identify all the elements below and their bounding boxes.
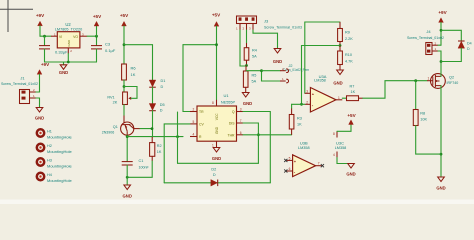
op-amp U3B (unused) (284, 140, 324, 176)
svg-text:4.7K: 4.7K (345, 59, 353, 63)
svg-text:CV: CV (199, 123, 204, 127)
wire Q1 emitter down (126, 135, 128, 161)
wire vertical to lower loop (177, 112, 179, 163)
svg-text:H4: H4 (47, 173, 52, 177)
svg-text:GND: GND (243, 101, 252, 106)
op timer U1 NE555P (190, 93, 243, 148)
power +9V (regulator input) (36, 13, 45, 36)
wire R8 bottom to source (416, 126, 441, 155)
svg-text:GND: GND (212, 156, 221, 161)
svg-text:+5V: +5V (212, 12, 221, 17)
svg-text:MountingHole: MountingHole (47, 178, 72, 183)
wire +5V riser to TR (183, 45, 190, 112)
svg-text:D: D (467, 47, 470, 51)
svg-text:R3: R3 (297, 117, 302, 121)
wire drain into Q2 (440, 74, 442, 77)
svg-text:2N3906: 2N3906 (102, 131, 115, 135)
wire branch +5V over to VCC riser (183, 44, 217, 46)
svg-text:Screw_Terminal_01x02: Screw_Terminal_01x02 (1, 82, 38, 86)
node drain junction (440, 60, 443, 63)
svg-text:GND: GND (35, 116, 44, 121)
regulator U2 LM7805_TO220 (51, 22, 87, 54)
svg-text:2.2K: 2.2K (345, 37, 353, 41)
ground C1 (123, 185, 132, 199)
wire R7 to gate (363, 81, 427, 99)
resistor R8 (413, 81, 427, 126)
svg-text:LM358: LM358 (298, 146, 310, 150)
connector J1 Screw_Terminal_01x02 (1, 76, 38, 104)
node divider tap (339, 44, 342, 47)
svg-text:2: 2 (306, 100, 308, 104)
wire J3 pin1 to divider mid (240, 30, 247, 66)
svg-text:1K: 1K (351, 90, 356, 94)
wire THR to R3 (243, 134, 292, 136)
wire battery top line (305, 22, 340, 93)
svg-text:D: D (161, 85, 164, 89)
svg-text:VCC: VCC (215, 113, 219, 120)
svg-text:D: D (160, 108, 163, 112)
op-amp U3A (305, 74, 343, 112)
wire DIS drop (243, 123, 258, 163)
wire J3 pin3 to gnd (253, 30, 278, 49)
svg-text:U2: U2 (65, 22, 71, 27)
svg-text:H2: H2 (47, 144, 52, 148)
ground R10 (333, 70, 343, 85)
svg-text:DIS: DIS (229, 122, 235, 126)
svg-text:5: 5 (289, 157, 291, 161)
svg-text:100nF: 100nF (139, 165, 150, 169)
connector J2 Conn_01x02_Female (280, 64, 309, 83)
svg-text:C3: C3 (105, 41, 111, 46)
wire J4 pin2 to +9V (438, 44, 441, 46)
node +9V/D4 junction (440, 29, 443, 32)
svg-text:NE555P: NE555P (221, 100, 236, 104)
svg-text:D2: D2 (211, 168, 216, 172)
wire R2 bottom to C1 gnd wire (127, 161, 152, 177)
power +9V (J1) (37, 62, 50, 92)
svg-text:VO: VO (73, 35, 78, 39)
svg-text:3: 3 (240, 108, 242, 112)
power +5V (regulator output) (93, 14, 102, 36)
svg-text:GND: GND (273, 59, 282, 64)
op-amp power unit U3C (333, 131, 346, 157)
svg-text:5A: 5A (252, 79, 257, 83)
svg-text:5: 5 (193, 120, 195, 124)
svg-text:2K: 2K (113, 101, 118, 105)
svg-text:0.33µF: 0.33µF (55, 50, 68, 55)
svg-text:1K: 1K (297, 123, 302, 127)
svg-text:Q1: Q1 (113, 125, 118, 129)
svg-text:R6: R6 (131, 66, 137, 71)
svg-text:LM358: LM358 (335, 146, 347, 150)
svg-text:+9V: +9V (41, 62, 50, 67)
svg-text:D: D (213, 173, 216, 177)
mounting hole H2 (37, 144, 73, 154)
mounting hole H4 (37, 173, 73, 183)
svg-text:Q2: Q2 (449, 76, 454, 80)
ground regulator (59, 62, 68, 75)
node source/R8 junction (440, 153, 443, 156)
wire J1 pin2 to +9V (36, 91, 40, 93)
svg-text:THR: THR (228, 134, 236, 138)
wire J3 pin2 to R4 (246, 30, 248, 43)
wire RV1 bottom to Q1 base (123, 105, 125, 116)
svg-text:RV1: RV1 (107, 96, 114, 100)
svg-text:+9V: +9V (36, 13, 45, 18)
svg-text:7: 7 (240, 119, 242, 123)
wire J4 pin1 to drain (438, 51, 441, 74)
ground J3 pin3 (273, 49, 282, 65)
wire cap node to 555 reset line (127, 136, 183, 138)
svg-text:4: 4 (193, 133, 195, 137)
svg-text:GND: GND (346, 172, 355, 177)
wire D4 bottom branch (441, 48, 461, 61)
connector J4 Screw_Terminal_01x02 (407, 29, 444, 55)
svg-text:R5: R5 (252, 73, 257, 77)
resistor R2 (150, 137, 162, 161)
svg-text:8: 8 (212, 101, 214, 105)
svg-text:+5V: +5V (93, 14, 102, 19)
ground R5 (242, 93, 252, 107)
svg-text:MountingHole: MountingHole (47, 149, 72, 154)
diode D1 (149, 79, 165, 89)
node THR junction (257, 133, 260, 136)
resistor R3 (289, 104, 302, 135)
svg-text:H1: H1 (47, 130, 52, 134)
resistor R4 (244, 43, 257, 66)
svg-text:R9: R9 (345, 31, 350, 35)
capacitor C3 (91, 36, 116, 62)
svg-text:VI: VI (59, 35, 62, 39)
svg-text:C1: C1 (139, 159, 144, 163)
svg-text:1K: 1K (131, 72, 136, 77)
svg-text:7: 7 (318, 162, 320, 166)
transistor Q2 IRF740 (427, 74, 458, 89)
svg-text:1K: 1K (157, 150, 162, 154)
node input junction (43, 35, 46, 38)
svg-text:0.1µF: 0.1µF (105, 48, 116, 53)
node diode/R2 junction (151, 127, 154, 130)
svg-text:Screw_Terminal_01x03: Screw_Terminal_01x03 (264, 26, 302, 30)
wire J1 pin1 to gnd (36, 98, 40, 108)
wire R3 top to inverting input (292, 103, 305, 105)
wire Q1 collector to R2 node (140, 128, 152, 130)
wire lower loop horizontal (178, 162, 259, 164)
svg-text:GND: GND (215, 126, 219, 134)
svg-text:+5V: +5V (347, 113, 356, 118)
svg-text:U1: U1 (223, 93, 229, 98)
connector J3 Screw_Terminal_01x03 (236, 16, 302, 30)
transistor Q1 2N3906 (102, 122, 140, 135)
svg-text:GND: GND (67, 39, 71, 47)
svg-text:U3B: U3B (300, 140, 308, 145)
wire tap line to inverting input (302, 46, 341, 105)
resistor R6 (122, 64, 137, 80)
ground Q2 source (436, 177, 445, 191)
svg-text:5A: 5A (252, 55, 257, 59)
svg-text:R2: R2 (157, 144, 162, 148)
svg-text:GND: GND (59, 70, 68, 75)
svg-text:R10: R10 (345, 53, 352, 57)
svg-text:8: 8 (333, 132, 335, 136)
potentiometer RV1 (107, 92, 131, 105)
wire CV loop (164, 124, 190, 183)
svg-text:1: 1 (338, 96, 340, 100)
diode D2 (211, 168, 218, 187)
wire Q output drop (243, 112, 270, 183)
capacitor C2 (39, 36, 68, 62)
svg-text:GND: GND (333, 80, 342, 85)
capacitor C1 (122, 159, 150, 185)
ground J1 (35, 108, 44, 121)
wire ground rail (45, 61, 97, 63)
svg-text:GND: GND (123, 194, 132, 199)
wire branch to diode chain (124, 45, 153, 80)
svg-text:MountingHole: MountingHole (47, 164, 72, 169)
svg-text:D4: D4 (467, 41, 472, 45)
wire source down (440, 86, 442, 177)
mounting hole H1 (37, 129, 73, 139)
node divider mid junction (245, 64, 248, 67)
svg-text:TR: TR (199, 110, 204, 114)
svg-text:D1: D1 (161, 79, 166, 83)
resistor R7 (342, 84, 363, 100)
wire VO line (87, 35, 96, 37)
svg-text:D5: D5 (160, 103, 165, 107)
svg-text:6: 6 (289, 167, 291, 171)
svg-text:H3: H3 (47, 159, 52, 163)
wire D4 top branch (441, 30, 461, 41)
svg-text:R7: R7 (350, 84, 355, 88)
svg-text:U3C: U3C (336, 141, 344, 146)
power +5V (timing chain) (120, 13, 129, 64)
resistor R10 (338, 46, 354, 71)
wire input line (40, 35, 51, 37)
svg-text:IRF740: IRF740 (447, 81, 459, 85)
svg-text:+5V: +5V (120, 13, 129, 18)
wire D2 line (164, 182, 270, 184)
svg-text:2: 2 (193, 108, 195, 112)
sheet corner crosshair (0, 0, 33, 32)
node gate/R8 junction (414, 79, 417, 82)
svg-text:10K: 10K (420, 118, 427, 122)
wire regulator ground drop (67, 54, 69, 63)
svg-text:LM358: LM358 (314, 78, 326, 82)
svg-text:GND: GND (436, 186, 445, 191)
diode D5 (149, 103, 164, 113)
wire divider mid to J2 staircase (247, 71, 281, 81)
svg-text:R4: R4 (252, 49, 257, 53)
svg-text:1: 1 (428, 77, 430, 81)
node +5V branch junction (123, 43, 126, 46)
node cap node junction (126, 135, 129, 138)
svg-text:R8: R8 (420, 112, 425, 116)
wire R6 to RV1 (123, 80, 125, 92)
power +5V (op-amp) (337, 113, 357, 132)
svg-text:3: 3 (306, 89, 308, 93)
resistor R5 (243, 66, 256, 93)
power +5V (555 VCC) (212, 12, 221, 99)
svg-text:Q: Q (232, 110, 235, 114)
svg-text:MountingHole: MountingHole (47, 135, 72, 140)
mounting hole H3 (37, 158, 73, 168)
wire D1 to D5 (152, 87, 154, 103)
svg-text:4: 4 (333, 153, 335, 157)
wire RV1 wiper loop (124, 87, 137, 99)
power +9V (load) (438, 10, 447, 45)
svg-text:6: 6 (240, 131, 242, 135)
ground 555 (212, 148, 221, 161)
svg-text:Screw_Terminal_01x02: Screw_Terminal_01x02 (407, 36, 444, 40)
wire D5 to node (152, 111, 154, 137)
resistor R9 (338, 22, 354, 46)
svg-text:+9V: +9V (438, 10, 447, 15)
diode D4 (458, 41, 472, 51)
ground op-amp (337, 158, 356, 177)
svg-text:LM7805_TO220: LM7805_TO220 (55, 28, 82, 32)
